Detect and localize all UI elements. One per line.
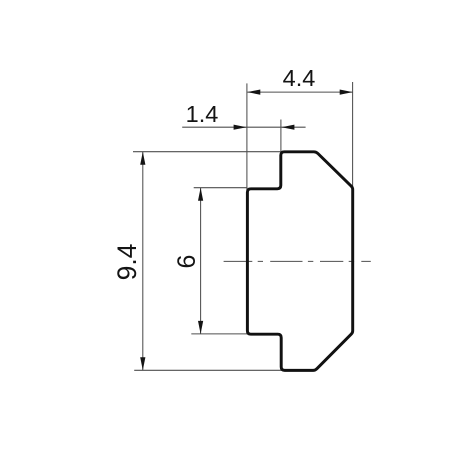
- wire: 4.4 dimension line: [247, 91, 352, 93]
- node: arrow 9.4 top (points up): [140, 152, 145, 165]
- wire: 9.4 bottom extension line: [134, 369, 314, 371]
- svg-text:4.4: 4.4: [283, 65, 316, 91]
- node: arrow 1.4 right (points left): [281, 125, 294, 130]
- wire: 4.4 left extension line: [246, 83, 248, 190]
- node: arrow 4.4 left: [247, 90, 260, 95]
- node: arrow 6 bottom (points down): [198, 321, 203, 334]
- node: horizontal centerline (dash-dot): [224, 260, 371, 262]
- node: arrow 6 top (points up): [198, 188, 203, 201]
- node: part profile outline: [247, 152, 352, 371]
- wire: 1.4 dimension line with tails: [182, 126, 305, 128]
- node: arrow 9.4 bottom (points down): [140, 357, 145, 370]
- svg-text:9.4: 9.4: [112, 244, 142, 281]
- wire: 9.4 top extension line: [133, 151, 283, 153]
- wire: 6 top extension line: [194, 187, 248, 189]
- wire: 9.4 dimension line: [142, 152, 144, 370]
- wire: 4.4 right extension line: [352, 82, 354, 188]
- wire: 6 dimension line: [200, 188, 202, 334]
- wire: 6 bottom extension line: [191, 333, 247, 335]
- node: arrow 1.4 left (points right): [234, 125, 247, 130]
- svg-text:1.4: 1.4: [186, 101, 219, 127]
- node: arrow 4.4 right: [340, 90, 353, 95]
- wire: 1.4 right extension line: [280, 120, 282, 152]
- svg-text:6: 6: [173, 255, 201, 269]
